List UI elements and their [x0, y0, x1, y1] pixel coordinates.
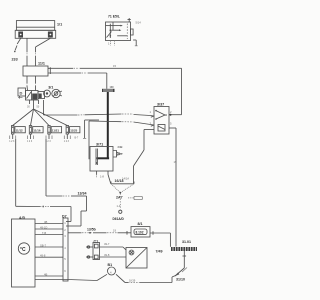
wire fuse 11/12 down and over to connector D7 pin1 — [16, 139, 71, 222]
svg-text:11/12: 11/12 — [16, 128, 23, 132]
wire 3/71 to splice triangle — [108, 175, 111, 184]
wire C1 feed upper — [86, 242, 126, 250]
wire relay coil left down — [134, 130, 155, 184]
svg-text:1 2 3: 1 2 3 — [64, 141, 70, 143]
temperature sensor B1 — [108, 263, 116, 275]
svg-text:11/16: 11/16 — [33, 128, 40, 132]
svg-text:11/21: 11/21 — [52, 128, 59, 132]
svg-text:49-7: 49-7 — [104, 242, 110, 246]
wire fuse 11/21 down and over to 13/34 — [46, 139, 87, 226]
svg-text:4B: 4B — [44, 220, 47, 224]
wire A/D bottom through sensor to ground — [35, 274, 176, 282]
wire 8/1 right to ground rail — [150, 231, 170, 247]
temperature gauge symbol — [18, 243, 29, 254]
wire C1 feed lower — [86, 253, 126, 258]
svg-text:D: D — [20, 91, 23, 96]
switch unit 71 E5/L (top right) — [106, 15, 142, 46]
svg-text:8.102: 8.102 — [136, 231, 144, 235]
wire A/D pin2 to D7 — [35, 226, 63, 230]
svg-text:71 E5/L: 71 E5/L — [108, 15, 120, 19]
svg-text:16/18: 16/18 — [115, 179, 124, 183]
svg-text:5/14: 5/14 — [136, 21, 142, 25]
wire A/D pin5 to D7 — [35, 254, 63, 258]
svg-text:1K39: 1K39 — [129, 279, 136, 283]
ground rail 31.01 — [171, 240, 197, 251]
splice triangle 2A7 — [111, 179, 134, 200]
svg-text:7/49: 7/49 — [156, 250, 163, 254]
svg-text:13/5b: 13/5b — [87, 228, 96, 232]
svg-text:15: 15 — [113, 64, 116, 68]
svg-text:31/10: 31/10 — [176, 278, 185, 282]
svg-text:D61A/D: D61A/D — [113, 217, 125, 221]
wire 11/1 down to ignition switch — [27, 76, 36, 91]
svg-text:1-4: 1-4 — [117, 204, 121, 208]
connector bar 13C — [102, 86, 115, 92]
svg-text:49-8: 49-8 — [40, 254, 46, 258]
connector box C:2 (mid) — [128, 196, 142, 199]
svg-text:19: 19 — [174, 160, 177, 164]
connector C1 — [93, 240, 100, 260]
svg-text:B1: B1 — [108, 263, 113, 267]
ignition switch lower terminals — [27, 100, 40, 109]
svg-text:8/1: 8/1 — [138, 222, 143, 226]
svg-text:11/25: 11/25 — [70, 128, 77, 132]
wire second feed to fusebox — [26, 38, 28, 66]
wire battery negative to 233 — [14, 38, 21, 52]
wire relay right lower to ground rail — [169, 128, 177, 247]
wire trunk upper from 11/1 to right — [48, 64, 182, 68]
fuse 11/12 — [9, 126, 25, 144]
wire relay coil feed line2 — [89, 121, 154, 126]
svg-text:49-8: 49-8 — [104, 253, 110, 257]
component 3/71 — [90, 143, 113, 172]
svg-text:49-1D: 49-1D — [40, 226, 47, 230]
svg-text:13/34: 13/34 — [78, 192, 87, 196]
fusebox feed 11/1 — [23, 62, 50, 77]
svg-text:19: 19 — [113, 229, 116, 233]
wire A/D pin3 to D7 — [35, 231, 63, 235]
wire D7 to relay box 8/1 (13/5b) — [68, 228, 131, 235]
fuse 11/25 — [64, 126, 80, 144]
svg-text:3/37: 3/37 — [157, 103, 164, 107]
diode box 8/1 — [131, 222, 150, 237]
wire 3/71 lower stubs — [97, 171, 130, 181]
svg-text:2A7: 2A7 — [116, 196, 123, 200]
wire battery positive to fusebox — [36, 38, 51, 66]
connector strip D7 — [62, 215, 68, 282]
svg-text:1-8: 1-8 — [100, 175, 104, 179]
svg-text:1/1: 1/1 — [57, 23, 62, 27]
svg-text:3/1: 3/1 — [48, 86, 53, 90]
wire corner bracket right of fuses — [75, 120, 100, 140]
svg-text:4B: 4B — [44, 273, 47, 277]
wire rail to ground — [183, 251, 187, 268]
svg-text:11/1: 11/1 — [38, 62, 45, 66]
svg-text:B-7: B-7 — [75, 137, 79, 140]
wire A/D pin1 to D7 — [35, 220, 63, 224]
battery 1/1 — [15, 21, 62, 39]
wire splice down to D61A/D — [117, 194, 122, 214]
svg-text:13C: 13C — [110, 86, 115, 89]
relay 3/37 — [150, 103, 173, 135]
connector 24B (right of 3/71) — [113, 145, 123, 157]
svg-text:°C: °C — [20, 247, 26, 253]
sensor 7/49 — [126, 248, 163, 269]
fuse 11/21 — [46, 126, 62, 144]
svg-text:24B: 24B — [118, 145, 123, 149]
ground 31/10 — [174, 268, 187, 282]
wire switch to relay line1 — [44, 100, 155, 117]
svg-text:31.01: 31.01 — [182, 240, 191, 244]
instrument cluster A/D — [12, 216, 36, 287]
ignition switch 3/1 — [26, 86, 62, 101]
svg-text:3/71: 3/71 — [96, 143, 103, 147]
svg-text:T-B: T-B — [42, 231, 46, 235]
wire from line2 down to 3/71 — [88, 121, 90, 159]
svg-text:1 2 3: 1 2 3 — [9, 141, 15, 143]
svg-text:1 2 3: 1 2 3 — [27, 141, 33, 143]
wire A/D pin6 to D7 — [35, 273, 63, 277]
wire switch fan to fuses — [13, 104, 68, 126]
wire trunk lower from 11/1 — [48, 73, 107, 89]
wire trunk upper descent at right — [169, 68, 182, 115]
svg-text:SB-7: SB-7 — [40, 244, 46, 248]
fuse 11/16 — [27, 126, 43, 144]
wire A/D pin4 to D7 — [35, 244, 63, 248]
wire thick highlighted run to 3/71 — [97, 92, 110, 158]
svg-text:233: 233 — [12, 58, 18, 62]
ignition switch terminal block — [18, 88, 26, 99]
